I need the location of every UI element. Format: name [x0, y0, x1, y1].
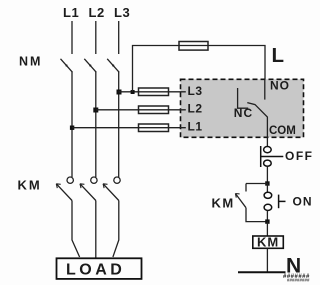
- svg-text:COM: COM: [269, 125, 296, 137]
- wire node A to ON: [266, 184, 268, 193]
- pushbutton ON (NO): [264, 192, 285, 210]
- coil KM: [253, 235, 283, 250]
- wire COM to OFF: [266, 130, 268, 146]
- svg-text:L: L: [272, 44, 285, 67]
- svg-text:L3: L3: [114, 5, 130, 20]
- svg-text:ON: ON: [293, 195, 313, 209]
- wire branch bottom: [246, 208, 267, 222]
- controller box (switch module): [181, 79, 304, 137]
- contactor KM pole 1: [56, 177, 73, 201]
- fuse FU4 (line L): [179, 42, 208, 51]
- wire pole3 to load: [113, 201, 119, 258]
- svg-text:#########: #########: [287, 278, 310, 283]
- wire L2 tap to fuse FU2: [96, 109, 139, 111]
- node B: [265, 219, 269, 223]
- breaker NM pole 3: [107, 21, 119, 72]
- node L3 tap: [117, 90, 122, 95]
- svg-text:KM: KM: [257, 235, 279, 250]
- contact KM auxiliary: [235, 184, 246, 208]
- svg-text:NO: NO: [270, 79, 290, 93]
- contactor KM pole 3: [103, 177, 120, 201]
- wire L2 vertical: [95, 72, 97, 177]
- wire pole1 to load: [72, 201, 80, 258]
- svg-text:L2: L2: [89, 5, 105, 20]
- contact NC symbol: [238, 88, 249, 108]
- wire pole2 to load: [95, 201, 97, 259]
- breaker NM pole 2: [84, 21, 96, 72]
- svg-text:NM: NM: [19, 55, 42, 69]
- fuse FU3: [139, 124, 169, 132]
- wire top fuse to L corner: [208, 46, 265, 81]
- wire riser to top fuse: [133, 46, 180, 92]
- wire node B to coil: [266, 222, 268, 236]
- fuse FU2: [139, 106, 169, 114]
- N rail: [238, 271, 286, 273]
- wire coil to N rail: [266, 248, 268, 272]
- svg-text:LOAD: LOAD: [66, 262, 125, 279]
- node riser junction: [131, 90, 135, 94]
- node L2 tap: [93, 108, 98, 113]
- breaker NM pole 1: [61, 21, 73, 72]
- wire branch top: [246, 183, 267, 185]
- svg-text:KM: KM: [18, 178, 42, 193]
- wire fuse FU3 to terminal L1: [169, 127, 186, 129]
- node A: [265, 181, 269, 185]
- svg-text:L2: L2: [188, 102, 203, 116]
- wire L1 tap to fuse FU3: [72, 127, 139, 129]
- contactor KM pole 2: [80, 177, 97, 201]
- wire ON to node B: [266, 211, 268, 222]
- svg-text:NC: NC: [234, 106, 253, 120]
- wire fuse FU2 to terminal L2: [169, 109, 186, 111]
- svg-text:L1: L1: [188, 120, 203, 134]
- wire L1 vertical: [71, 72, 73, 177]
- node L1 tap: [70, 126, 74, 130]
- svg-text:KM: KM: [212, 196, 235, 211]
- svg-text:OFF: OFF: [285, 149, 314, 163]
- svg-text:L1: L1: [63, 5, 79, 20]
- pushbutton OFF (NC): [261, 146, 284, 167]
- fuse FU1: [139, 88, 169, 96]
- wire OFF to node A: [266, 166, 268, 183]
- wire NO feed: [264, 79, 266, 99]
- wire L3 tap to fuse FU1: [119, 91, 139, 93]
- load box: [57, 258, 142, 279]
- wire fuse FU1 to terminal L3: [169, 91, 186, 93]
- wire L3 vertical: [118, 72, 120, 177]
- relay blade NO-COM: [247, 103, 267, 130]
- svg-text:L3: L3: [188, 84, 203, 98]
